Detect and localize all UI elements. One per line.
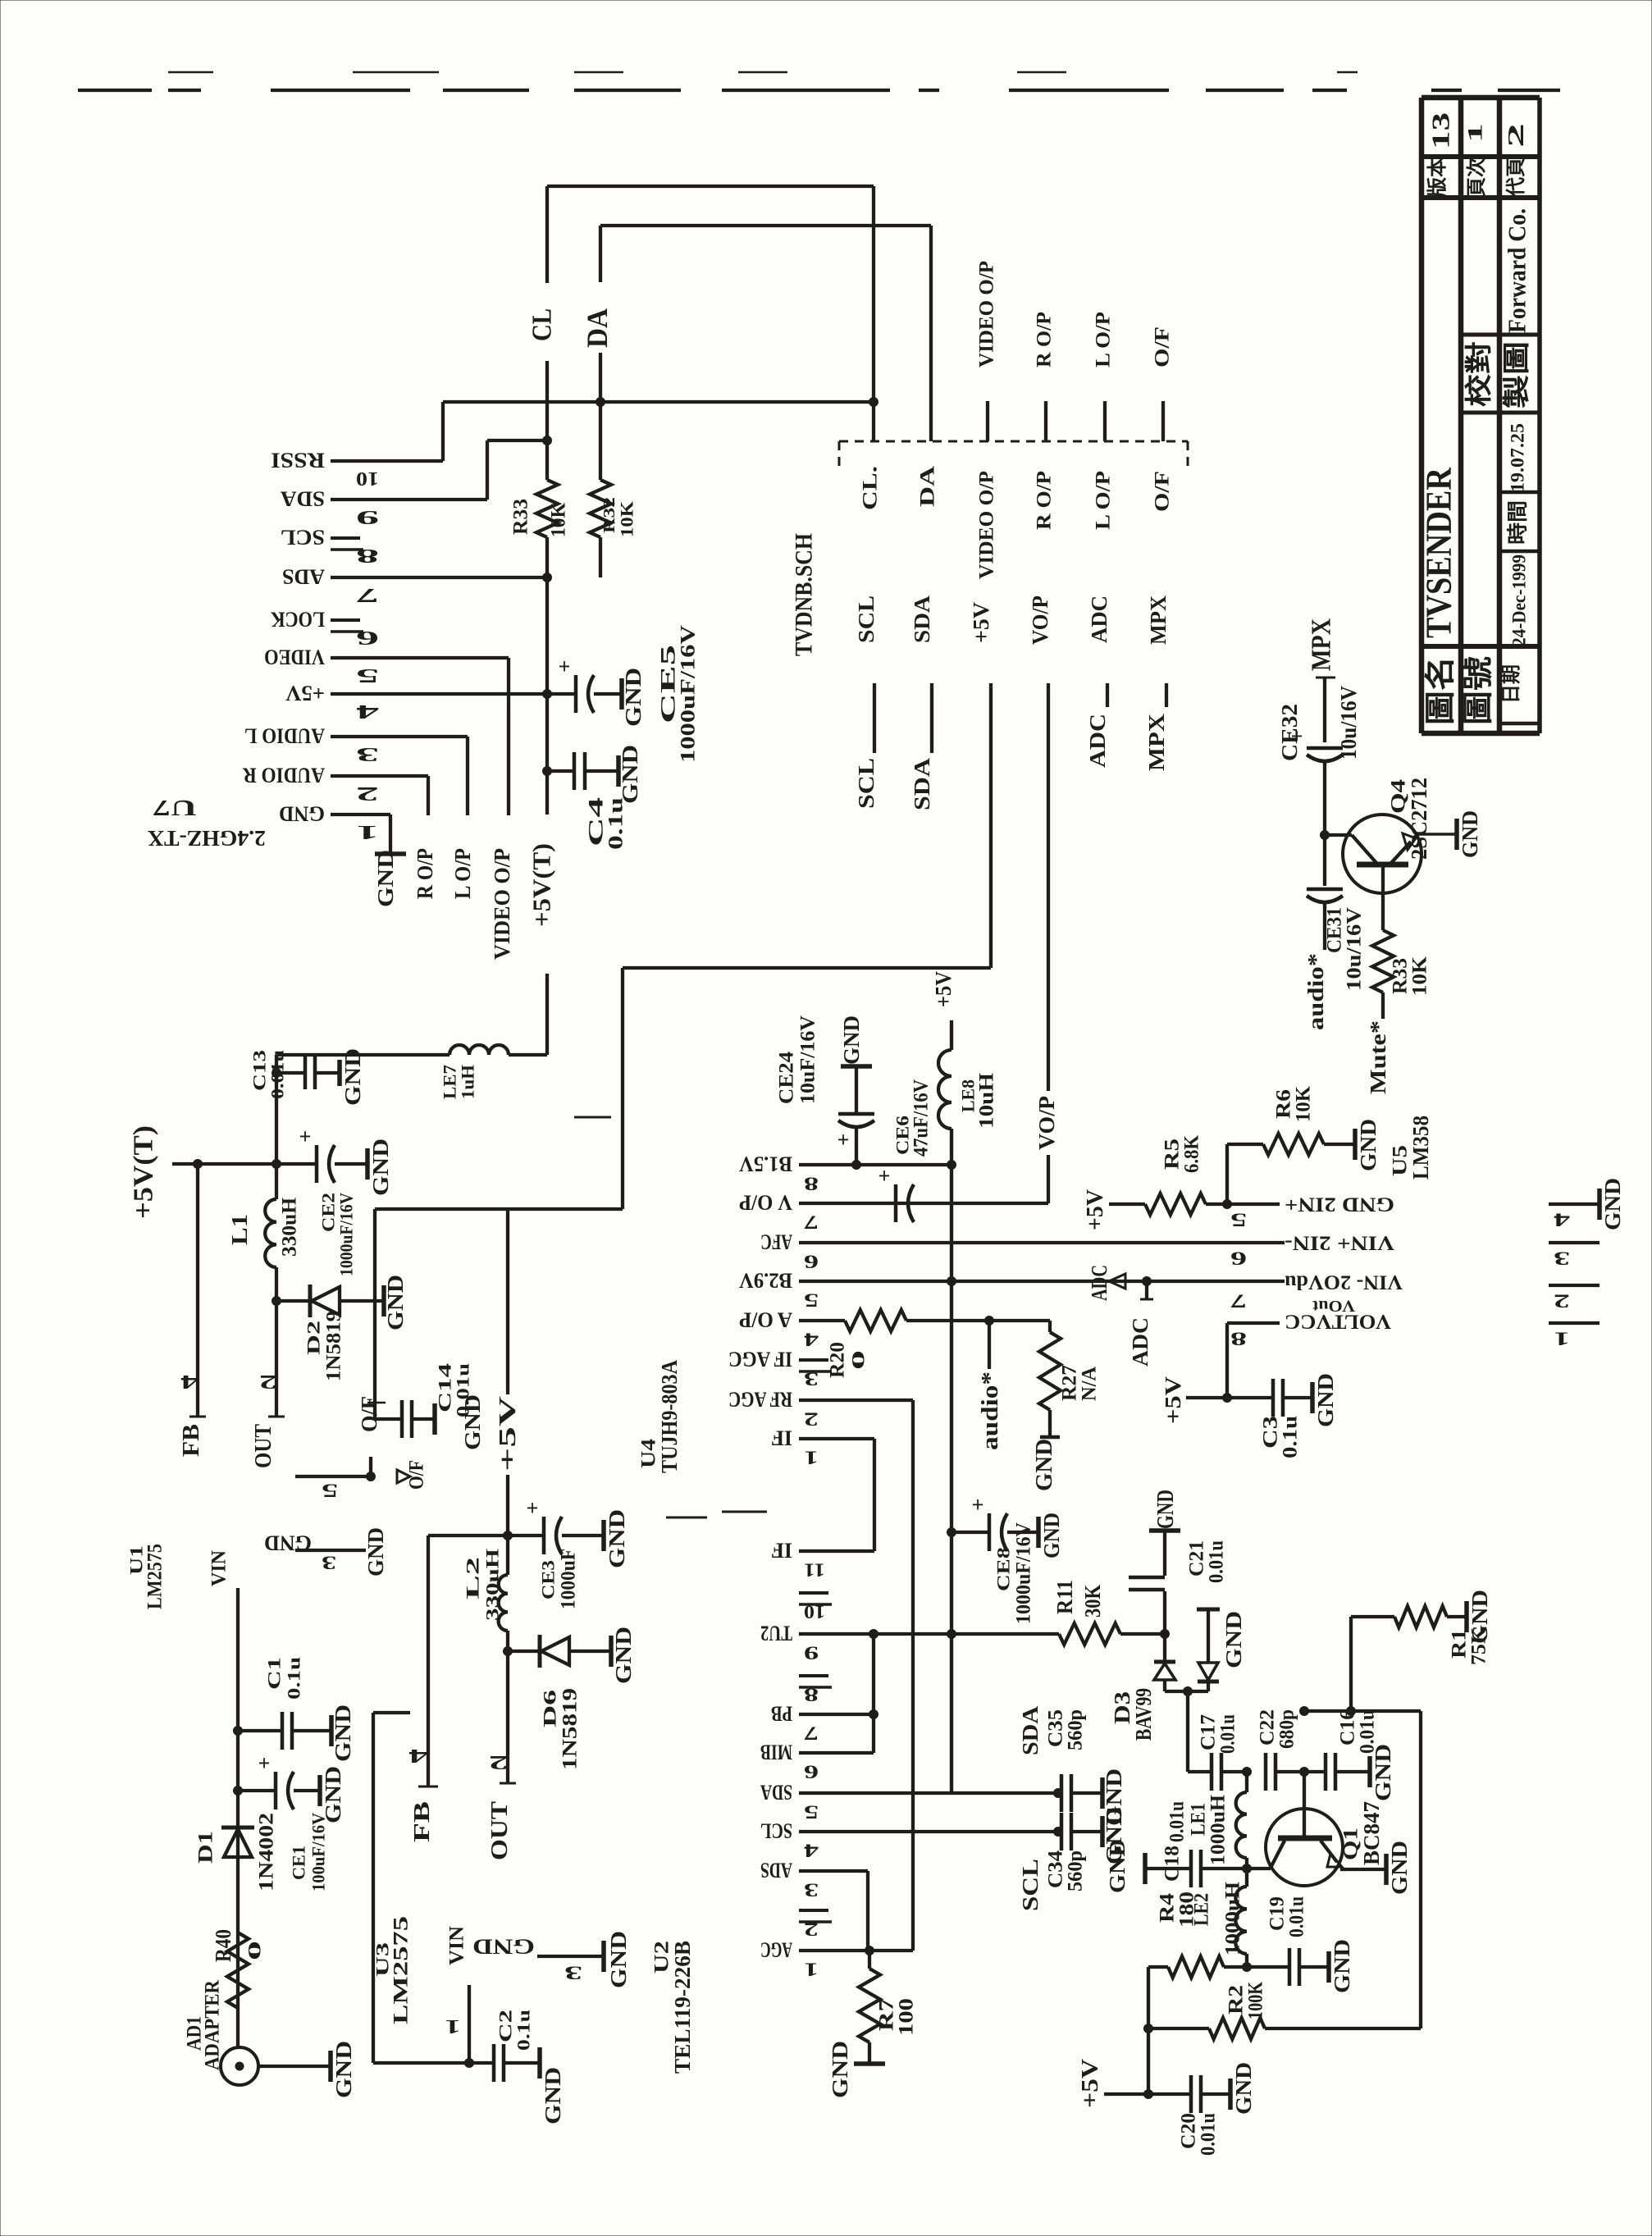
svg-text:O/F: O/F xyxy=(406,1460,428,1490)
svg-text:SCL: SCL xyxy=(281,526,325,550)
svg-text:VIDEO: VIDEO xyxy=(264,646,325,669)
svg-text:1000uF: 1000uF xyxy=(558,1549,580,1609)
svg-text:SDA: SDA xyxy=(1018,1705,1043,1755)
svg-text:0.1u: 0.1u xyxy=(513,2010,534,2051)
svg-text:SCL: SCL xyxy=(854,758,878,809)
svg-text:LM2575: LM2575 xyxy=(144,1544,167,1609)
svg-text:10: 10 xyxy=(356,468,379,489)
svg-text:C17: C17 xyxy=(1198,1714,1220,1750)
svg-text:MIB: MIB xyxy=(760,1741,792,1764)
svg-text:8: 8 xyxy=(804,1685,819,1705)
svg-text:+: + xyxy=(559,655,571,678)
svg-text:10uF/16V: 10uF/16V xyxy=(797,1015,819,1104)
svg-text:OUT: OUT xyxy=(486,1801,513,1860)
svg-text:5: 5 xyxy=(356,664,379,686)
svg-text:R6: R6 xyxy=(1273,1089,1295,1119)
svg-text:O/F: O/F xyxy=(357,1396,381,1432)
svg-text:R O/P: R O/P xyxy=(1034,312,1056,367)
svg-text:9: 9 xyxy=(804,1643,819,1663)
svg-text:B1.5V: B1.5V xyxy=(739,1152,792,1176)
svg-text:3: 3 xyxy=(322,1553,336,1573)
svg-text:代頁: 代頁 xyxy=(1505,157,1527,198)
svg-text:R4: R4 xyxy=(1157,1892,1179,1923)
svg-text:R5: R5 xyxy=(1161,1139,1184,1170)
svg-text:ADC: ADC xyxy=(1087,596,1111,643)
svg-text:GND: GND xyxy=(1458,810,1482,858)
svg-text:2.4GHZ-TX: 2.4GHZ-TX xyxy=(147,826,266,851)
svg-text:A O/P: A O/P xyxy=(739,1308,792,1332)
svg-text:1000uH: 1000uH xyxy=(1207,1794,1230,1865)
svg-text:R O/P: R O/P xyxy=(1034,471,1056,530)
svg-text:5: 5 xyxy=(804,1290,819,1311)
svg-text:GND: GND xyxy=(1387,1841,1412,1895)
svg-text:0.1u: 0.1u xyxy=(284,1657,304,1700)
svg-text:R O/P: R O/P xyxy=(413,848,437,899)
svg-text:GND: GND xyxy=(279,802,325,826)
svg-text:R2: R2 xyxy=(1225,1985,1248,2015)
svg-text:GND: GND xyxy=(828,2041,852,2098)
svg-text:+5V: +5V xyxy=(1161,1376,1185,1424)
svg-text:CE3: CE3 xyxy=(538,1560,559,1599)
svg-text:GND: GND xyxy=(373,850,398,907)
svg-text:D2: D2 xyxy=(303,1321,324,1355)
svg-text:1000uH: 1000uH xyxy=(1222,1881,1244,1955)
svg-text:R1: R1 xyxy=(1449,1629,1471,1659)
svg-text:MPX: MPX xyxy=(1146,596,1171,645)
svg-text:0.01u: 0.01u xyxy=(1357,1709,1379,1754)
svg-text:3: 3 xyxy=(356,743,379,764)
svg-text:IF: IF xyxy=(771,1539,792,1563)
svg-text:1: 1 xyxy=(1554,1329,1570,1349)
svg-text:0.01u: 0.01u xyxy=(1206,1540,1228,1583)
svg-text:Forward Co.: Forward Co. xyxy=(1503,208,1531,333)
svg-text:0.01u: 0.01u xyxy=(1166,1801,1189,1842)
svg-text:7: 7 xyxy=(356,584,379,605)
svg-text:11: 11 xyxy=(804,1560,825,1581)
svg-text:CE5: CE5 xyxy=(658,645,680,723)
svg-text:+5V(T): +5V(T) xyxy=(129,1125,159,1219)
svg-text:U7: U7 xyxy=(153,796,197,820)
svg-text:LM2575: LM2575 xyxy=(390,1916,413,2024)
svg-text:+5V: +5V xyxy=(1077,2059,1103,2108)
svg-text:0.01u: 0.01u xyxy=(1217,1714,1239,1754)
svg-text:330uH: 330uH xyxy=(279,1197,301,1257)
svg-text:1: 1 xyxy=(356,821,379,842)
svg-text:SCL: SCL xyxy=(854,596,878,643)
svg-text:製圖: 製圖 xyxy=(1502,341,1532,408)
svg-text:GND: GND xyxy=(331,2041,356,2098)
svg-text:LOCK: LOCK xyxy=(270,608,325,632)
svg-text:MPX: MPX xyxy=(1144,713,1169,771)
svg-text:D6: D6 xyxy=(540,1690,560,1727)
svg-text:R20: R20 xyxy=(827,1342,849,1378)
svg-text:+: + xyxy=(878,1164,891,1188)
svg-text:GND: GND xyxy=(363,1527,388,1577)
svg-text:10K: 10K xyxy=(1409,956,1431,996)
svg-text:ADS: ADS xyxy=(282,565,325,589)
svg-text:C3: C3 xyxy=(1260,1416,1282,1449)
svg-text:時間: 時間 xyxy=(1506,500,1530,545)
svg-text:6: 6 xyxy=(804,1762,819,1782)
svg-text:SCL: SCL xyxy=(760,1819,792,1843)
svg-text:SDA: SDA xyxy=(760,1781,792,1805)
svg-text:10K: 10K xyxy=(548,502,570,537)
svg-text:0.1u: 0.1u xyxy=(1280,1416,1302,1458)
svg-text:7: 7 xyxy=(804,1723,819,1744)
svg-text:GND: GND xyxy=(541,2067,565,2124)
svg-text:CL.: CL. xyxy=(860,466,882,510)
svg-text:4: 4 xyxy=(408,1745,428,1766)
svg-text:VIN+ 2IN-: VIN+ 2IN- xyxy=(1285,1232,1394,1254)
svg-text:0: 0 xyxy=(848,1350,869,1370)
svg-text:10u/16V: 10u/16V xyxy=(1336,686,1361,760)
svg-text:TVDNB.SCH: TVDNB.SCH xyxy=(791,533,818,656)
svg-text:4: 4 xyxy=(1553,1210,1570,1230)
svg-text:7: 7 xyxy=(804,1212,819,1233)
svg-text:+: + xyxy=(527,1496,539,1520)
svg-text:C16: C16 xyxy=(1337,1709,1359,1745)
svg-text:版本: 版本 xyxy=(1426,157,1449,197)
svg-text:GND 2IN+: GND 2IN+ xyxy=(1285,1193,1394,1216)
svg-text:24-Dec-1999: 24-Dec-1999 xyxy=(1509,554,1530,646)
svg-text:+: + xyxy=(258,1751,271,1775)
svg-text:R33: R33 xyxy=(510,499,532,535)
svg-text:GND: GND xyxy=(472,1935,535,1959)
svg-text:CE31: CE31 xyxy=(1324,907,1346,953)
svg-text:C21: C21 xyxy=(1186,1540,1208,1577)
svg-text:560p: 560p xyxy=(1065,1709,1087,1750)
svg-text:1: 1 xyxy=(1465,123,1487,143)
svg-text:頁次: 頁次 xyxy=(1466,157,1488,197)
svg-text:VIDEO O/P: VIDEO O/P xyxy=(976,471,998,579)
svg-text:CL: CL xyxy=(527,308,558,341)
svg-text:PB: PB xyxy=(771,1702,792,1726)
svg-text:4: 4 xyxy=(803,1841,819,1861)
svg-text:VIDEO O/P: VIDEO O/P xyxy=(490,848,514,960)
svg-text:1N5819: 1N5819 xyxy=(323,1311,345,1381)
svg-text:VIN: VIN xyxy=(208,1550,230,1586)
svg-text:GND: GND xyxy=(606,1931,631,1988)
svg-text:1000uF/16V: 1000uF/16V xyxy=(1013,1522,1035,1624)
svg-text:0: 0 xyxy=(244,1941,265,1960)
svg-text:GND: GND xyxy=(1600,1178,1625,1230)
svg-text:19.07.25: 19.07.25 xyxy=(1508,423,1528,492)
svg-text:GND: GND xyxy=(383,1275,408,1330)
svg-text:GND: GND xyxy=(368,1139,393,1196)
svg-text:audio*: audio* xyxy=(977,1371,1003,1450)
svg-text:L O/P: L O/P xyxy=(1093,312,1115,367)
svg-text:100: 100 xyxy=(896,1998,918,2036)
svg-text:330uH: 330uH xyxy=(482,1549,503,1621)
svg-text:4: 4 xyxy=(180,1371,199,1392)
svg-text:47uF/16V: 47uF/16V xyxy=(910,1079,933,1157)
svg-text:8: 8 xyxy=(356,545,379,566)
svg-text:LE1: LE1 xyxy=(1188,1803,1210,1836)
svg-text:C20: C20 xyxy=(1178,2113,1200,2149)
svg-text:1N5819: 1N5819 xyxy=(559,1688,582,1770)
svg-text:audio*: audio* xyxy=(1303,953,1328,1030)
svg-text:校對: 校對 xyxy=(1464,341,1495,407)
svg-text:VO/P: VO/P xyxy=(1028,596,1052,645)
svg-text:CE1: CE1 xyxy=(289,1846,309,1880)
svg-text:DA: DA xyxy=(581,308,614,348)
svg-text:13: 13 xyxy=(1426,112,1455,149)
svg-text:MPX: MPX xyxy=(1307,618,1337,671)
svg-text:O/F: O/F xyxy=(1152,326,1174,367)
svg-text:7: 7 xyxy=(1230,1291,1247,1312)
svg-text:3: 3 xyxy=(1554,1248,1570,1269)
svg-text:100K: 100K xyxy=(1245,1982,1267,2019)
svg-text:GND: GND xyxy=(839,1015,864,1065)
svg-text:GND: GND xyxy=(1221,1611,1246,1668)
svg-text:VO/P: VO/P xyxy=(1034,1096,1059,1150)
svg-text:CE24: CE24 xyxy=(776,1051,798,1104)
svg-text:日期: 日期 xyxy=(1500,664,1522,704)
svg-text:VIN: VIN xyxy=(446,1926,468,1965)
svg-text:+5V: +5V xyxy=(285,682,325,705)
svg-text:BC847: BC847 xyxy=(1359,1801,1384,1865)
svg-text:GND: GND xyxy=(1330,1939,1354,1993)
svg-text:10uH: 10uH xyxy=(976,1072,998,1129)
svg-text:9: 9 xyxy=(356,506,379,527)
svg-text:30K: 30K xyxy=(1080,1585,1105,1618)
svg-text:2: 2 xyxy=(259,1371,277,1392)
svg-text:10K: 10K xyxy=(617,501,637,537)
svg-text:2: 2 xyxy=(356,783,379,804)
svg-text:VOut: VOut xyxy=(1312,1297,1355,1315)
svg-text:8: 8 xyxy=(804,1174,819,1194)
svg-text:2: 2 xyxy=(1504,123,1528,148)
svg-text:0.01u: 0.01u xyxy=(1198,2113,1220,2156)
svg-text:GND: GND xyxy=(340,1048,365,1106)
svg-text:GND: GND xyxy=(1313,1373,1338,1427)
svg-text:+5V: +5V xyxy=(495,1396,521,1472)
svg-text:0.01u: 0.01u xyxy=(267,1050,288,1099)
svg-text:2: 2 xyxy=(804,1919,819,1940)
svg-text:3: 3 xyxy=(804,1880,819,1901)
svg-text:TU2: TU2 xyxy=(760,1622,792,1645)
svg-text:R27: R27 xyxy=(1059,1365,1081,1401)
svg-text:1000uF/16V: 1000uF/16V xyxy=(336,1193,357,1276)
svg-text:560p: 560p xyxy=(1065,1850,1087,1891)
svg-text:D1: D1 xyxy=(195,1831,217,1864)
svg-text:B2.9V: B2.9V xyxy=(739,1269,792,1293)
svg-text:GND: GND xyxy=(618,745,642,804)
svg-text:L1: L1 xyxy=(227,1214,252,1245)
svg-text:GND: GND xyxy=(1039,1513,1064,1558)
svg-text:C18: C18 xyxy=(1161,1846,1184,1882)
svg-text:SDA: SDA xyxy=(910,757,934,810)
svg-text:圖號: 圖號 xyxy=(1462,656,1496,725)
svg-text:6: 6 xyxy=(1230,1248,1247,1269)
svg-text:8: 8 xyxy=(1230,1329,1247,1349)
svg-text:0.01u: 0.01u xyxy=(1286,1896,1308,1937)
svg-text:GND: GND xyxy=(264,1531,312,1555)
svg-text:+5V: +5V xyxy=(969,601,993,643)
svg-text:GND: GND xyxy=(1356,1119,1380,1171)
svg-text:+: + xyxy=(837,1128,850,1152)
svg-text:GND: GND xyxy=(1152,1490,1179,1529)
svg-text:4: 4 xyxy=(356,700,379,722)
svg-text:GND: GND xyxy=(1031,1439,1057,1491)
svg-text:3: 3 xyxy=(564,1963,582,1983)
svg-text:10u/16V: 10u/16V xyxy=(1344,907,1366,991)
svg-text:1: 1 xyxy=(445,2015,461,2037)
svg-text:BAV99: BAV99 xyxy=(1131,1688,1156,1741)
svg-text:6: 6 xyxy=(356,627,379,648)
svg-text:R11: R11 xyxy=(1052,1580,1077,1614)
svg-text:1uH: 1uH xyxy=(458,1065,478,1099)
svg-text:C34: C34 xyxy=(1045,1850,1067,1888)
svg-text:V O/P: V O/P xyxy=(739,1191,792,1215)
svg-text:CE32: CE32 xyxy=(1277,704,1302,761)
svg-text:FB: FB xyxy=(178,1424,204,1457)
svg-text:100uF/16V: 100uF/16V xyxy=(308,1813,329,1891)
svg-text:1: 1 xyxy=(804,1960,819,1980)
svg-text:SDA: SDA xyxy=(910,595,934,643)
svg-text:DA: DA xyxy=(917,466,939,507)
svg-text:R7: R7 xyxy=(876,1998,898,2031)
svg-text:IF AGC: IF AGC xyxy=(728,1348,792,1371)
svg-text:+: + xyxy=(299,1125,312,1148)
svg-text:2: 2 xyxy=(804,1409,819,1430)
svg-text:R40: R40 xyxy=(211,1929,235,1962)
svg-text:LM358: LM358 xyxy=(1408,1116,1433,1180)
svg-text:ADC: ADC xyxy=(1085,714,1110,768)
svg-text:GND: GND xyxy=(611,1627,636,1684)
svg-text:1N4002: 1N4002 xyxy=(256,1813,278,1891)
svg-text:Mute*: Mute* xyxy=(1366,1020,1390,1094)
svg-text:5: 5 xyxy=(322,1481,338,1501)
svg-text:6.8K: 6.8K xyxy=(1181,1135,1203,1173)
svg-text:N/A: N/A xyxy=(1079,1367,1101,1401)
svg-text:3: 3 xyxy=(804,1369,819,1390)
svg-text:+5V: +5V xyxy=(931,971,956,1007)
svg-text:1: 1 xyxy=(804,1448,819,1468)
svg-text:SDA: SDA xyxy=(281,487,325,511)
svg-text:AGC: AGC xyxy=(760,1938,792,1962)
svg-text:RF AGC: RF AGC xyxy=(728,1388,792,1412)
svg-text:2: 2 xyxy=(1554,1291,1570,1312)
svg-text:680p: 680p xyxy=(1276,1709,1298,1749)
svg-text:1000uF/16V: 1000uF/16V xyxy=(678,625,700,763)
svg-text:+5V(T): +5V(T) xyxy=(527,843,556,927)
svg-text:AUDIO L: AUDIO L xyxy=(244,724,325,748)
svg-text:RSSI: RSSI xyxy=(271,449,325,472)
svg-text:CE8: CE8 xyxy=(993,1547,1014,1591)
svg-text:L O/P: L O/P xyxy=(1093,471,1115,530)
svg-text:AUDIO R: AUDIO R xyxy=(243,764,325,787)
svg-text:180: 180 xyxy=(1176,1891,1198,1928)
svg-text:ADC: ADC xyxy=(1087,1265,1111,1301)
svg-text:O/F: O/F xyxy=(1152,471,1174,512)
svg-text:C35: C35 xyxy=(1045,1709,1067,1747)
svg-text:圖名: 圖名 xyxy=(1424,656,1458,725)
svg-text:ADC: ADC xyxy=(1128,1317,1152,1367)
svg-text:FB: FB xyxy=(409,1801,434,1842)
svg-text:10K: 10K xyxy=(1293,1085,1315,1122)
svg-text:L O/P: L O/P xyxy=(450,848,475,899)
svg-text:ADAPTER: ADAPTER xyxy=(202,1979,224,2070)
svg-text:C4: C4 xyxy=(586,796,608,846)
svg-text:C1: C1 xyxy=(264,1657,285,1690)
svg-text:GND: GND xyxy=(1105,1839,1129,1893)
svg-text:0.01u: 0.01u xyxy=(453,1363,473,1417)
svg-text:75K: 75K xyxy=(1468,1627,1490,1665)
svg-text:AFC: AFC xyxy=(760,1230,792,1254)
svg-text:6: 6 xyxy=(804,1252,819,1272)
svg-text:GND: GND xyxy=(1231,2062,1256,2115)
svg-text:5: 5 xyxy=(804,1802,819,1823)
svg-text:VIDEO O/P: VIDEO O/P xyxy=(976,261,998,367)
svg-text:ADS: ADS xyxy=(760,1859,792,1882)
svg-text:10: 10 xyxy=(804,1602,825,1622)
svg-text:TUJH9-803A: TUJH9-803A xyxy=(657,1360,682,1473)
svg-text:+5V: +5V xyxy=(1082,1189,1108,1230)
svg-text:GND: GND xyxy=(605,1509,629,1568)
svg-text:R33: R33 xyxy=(1390,958,1412,994)
svg-text:TEL119-226B: TEL119-226B xyxy=(670,1941,695,2074)
svg-text:IF: IF xyxy=(771,1426,792,1450)
svg-text:TVSENDER: TVSENDER xyxy=(1419,467,1459,638)
svg-text:5: 5 xyxy=(1230,1210,1247,1230)
svg-text:2: 2 xyxy=(489,1751,509,1773)
svg-text:OUT: OUT xyxy=(250,1424,276,1468)
svg-text:GND: GND xyxy=(331,1704,355,1762)
svg-text:SCL: SCL xyxy=(1018,1859,1043,1911)
svg-text:VIN- 2OVdu: VIN- 2OVdu xyxy=(1285,1271,1403,1294)
svg-text:C22: C22 xyxy=(1257,1709,1279,1745)
svg-text:GND: GND xyxy=(621,668,646,727)
svg-text:0.1u: 0.1u xyxy=(605,797,627,850)
svg-text:+: + xyxy=(972,1493,984,1517)
svg-text:L2: L2 xyxy=(463,1557,483,1599)
svg-text:4: 4 xyxy=(803,1330,819,1350)
svg-text:C19: C19 xyxy=(1266,1896,1289,1931)
svg-text:2SC2712: 2SC2712 xyxy=(1407,778,1431,860)
